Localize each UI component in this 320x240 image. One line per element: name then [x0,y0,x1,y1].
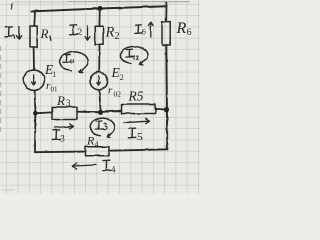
loop arrow I22 [120,47,147,65]
wire R5 to right node [156,108,167,111]
node left mid [33,111,38,116]
svg-text:5: 5 [137,131,143,143]
paper background [0,0,200,194]
subscript comma of I1 [13,35,16,39]
wire mid left [35,111,52,114]
label E2 [111,65,124,82]
label I2 (drawn I) [69,25,77,35]
wire R2 to E2 [98,44,100,72]
wire center node to R5 [101,111,122,112]
wire bottom left [35,151,86,154]
svg-text:R5: R5 [128,89,144,104]
label I1 (drawn I) [5,27,13,37]
arrow I6 up [148,22,153,37]
svg-text:6: 6 [187,28,192,38]
label r02 [108,85,121,99]
subscript 11 of I11 [71,60,74,63]
wire R6 top lead [165,3,167,22]
wire R3 to center node [77,111,101,114]
wire R2 top lead [98,9,100,27]
node center [98,110,103,115]
source E1 [24,70,45,91]
arrow I5 right [124,119,150,124]
svg-text:3: 3 [66,98,71,108]
arrow in E2 [97,76,101,85]
loop arrow I11 [60,52,88,72]
svg-text:R: R [105,24,115,40]
wire R1 top lead [33,11,36,26]
resistor R5 [122,104,156,114]
wire E2 to center node [99,90,100,112]
svg-text:R: R [40,26,49,41]
svg-text:r: r [108,85,113,97]
subscript 3 of I33 [104,123,107,129]
scan edge artifact bottom left [2,189,14,191]
svg-text:4: 4 [95,140,99,149]
label R4 [86,134,99,150]
label r01 [46,80,58,94]
label R5 [128,89,144,104]
wire R1 to E1 [33,47,35,70]
label I3 (drawn I) [52,130,60,140]
label E1 [44,62,56,79]
arrow in E1 [32,75,36,85]
resistor R2 [95,26,103,44]
svg-text:4: 4 [111,165,116,175]
svg-text:R: R [176,20,187,37]
source E2 [90,72,108,90]
label I6 (drawn I) [135,25,142,34]
resistor R4 [86,147,110,156]
wire bottom right [109,149,167,150]
label I11 drawn I inside ellipse [63,55,70,63]
svg-text:R: R [56,93,65,108]
arrow I3 right [55,124,74,129]
svg-text:2: 2 [78,27,83,37]
node right mid [164,107,169,112]
label R6 [176,20,192,38]
subscript 22 of I22 [134,56,139,59]
loop arrow I33 [90,118,115,137]
arrow I2 down [85,26,90,40]
label R2 [105,24,120,42]
node top middle [97,6,102,11]
svg-text:2: 2 [120,73,124,82]
resistor R6 [162,22,170,45]
label I5 (drawn I) [128,128,136,138]
label I33 drawn I inside ellipse [95,121,102,129]
svg-text:2: 2 [115,31,120,42]
label R1 [40,26,51,41]
arrow I4 left [72,163,96,169]
scan edge artifact top [12,1,68,3]
arrow I1 down [16,27,21,40]
svg-text:1: 1 [52,70,56,79]
stray mark top left [11,4,13,10]
label I4 (drawn I) [102,160,110,171]
label R3 [56,93,71,108]
svg-text:02: 02 [114,90,122,99]
svg-text:3: 3 [60,134,65,144]
resistor R3 [52,107,77,120]
resistor R1 [30,26,37,47]
wire top [32,6,167,11]
scan edge artifact left [0,46,2,135]
wire E1 to bottom corner [34,90,37,152]
wire right [166,45,167,149]
svg-text:6: 6 [142,28,146,37]
label I22 drawn I inside ellipse [126,49,133,57]
